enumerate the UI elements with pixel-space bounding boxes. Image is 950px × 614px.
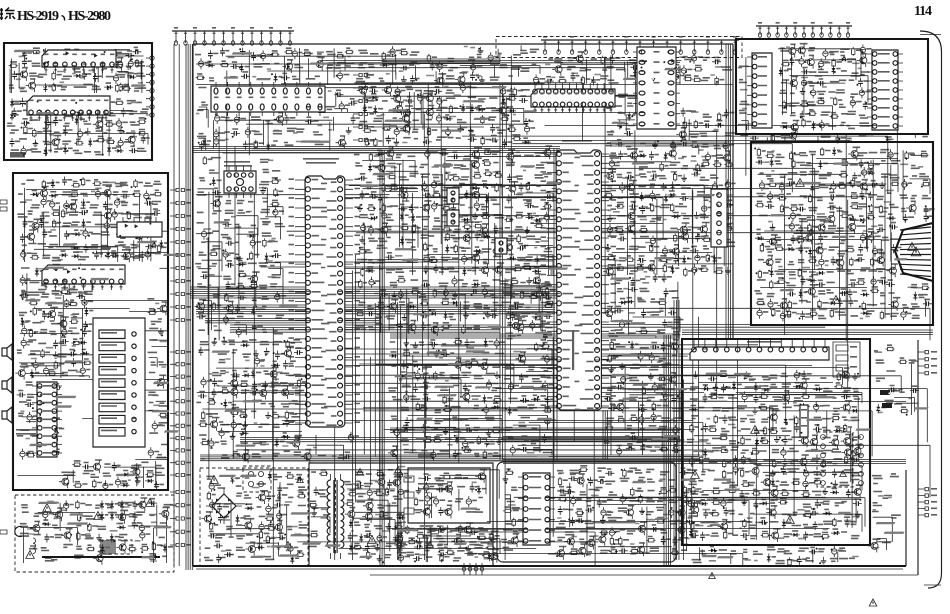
svg-text:114: 114 <box>914 4 932 19</box>
svg-text:HS-2980: HS-2980 <box>68 9 111 24</box>
svg-text:HS-2919: HS-2919 <box>17 9 59 24</box>
